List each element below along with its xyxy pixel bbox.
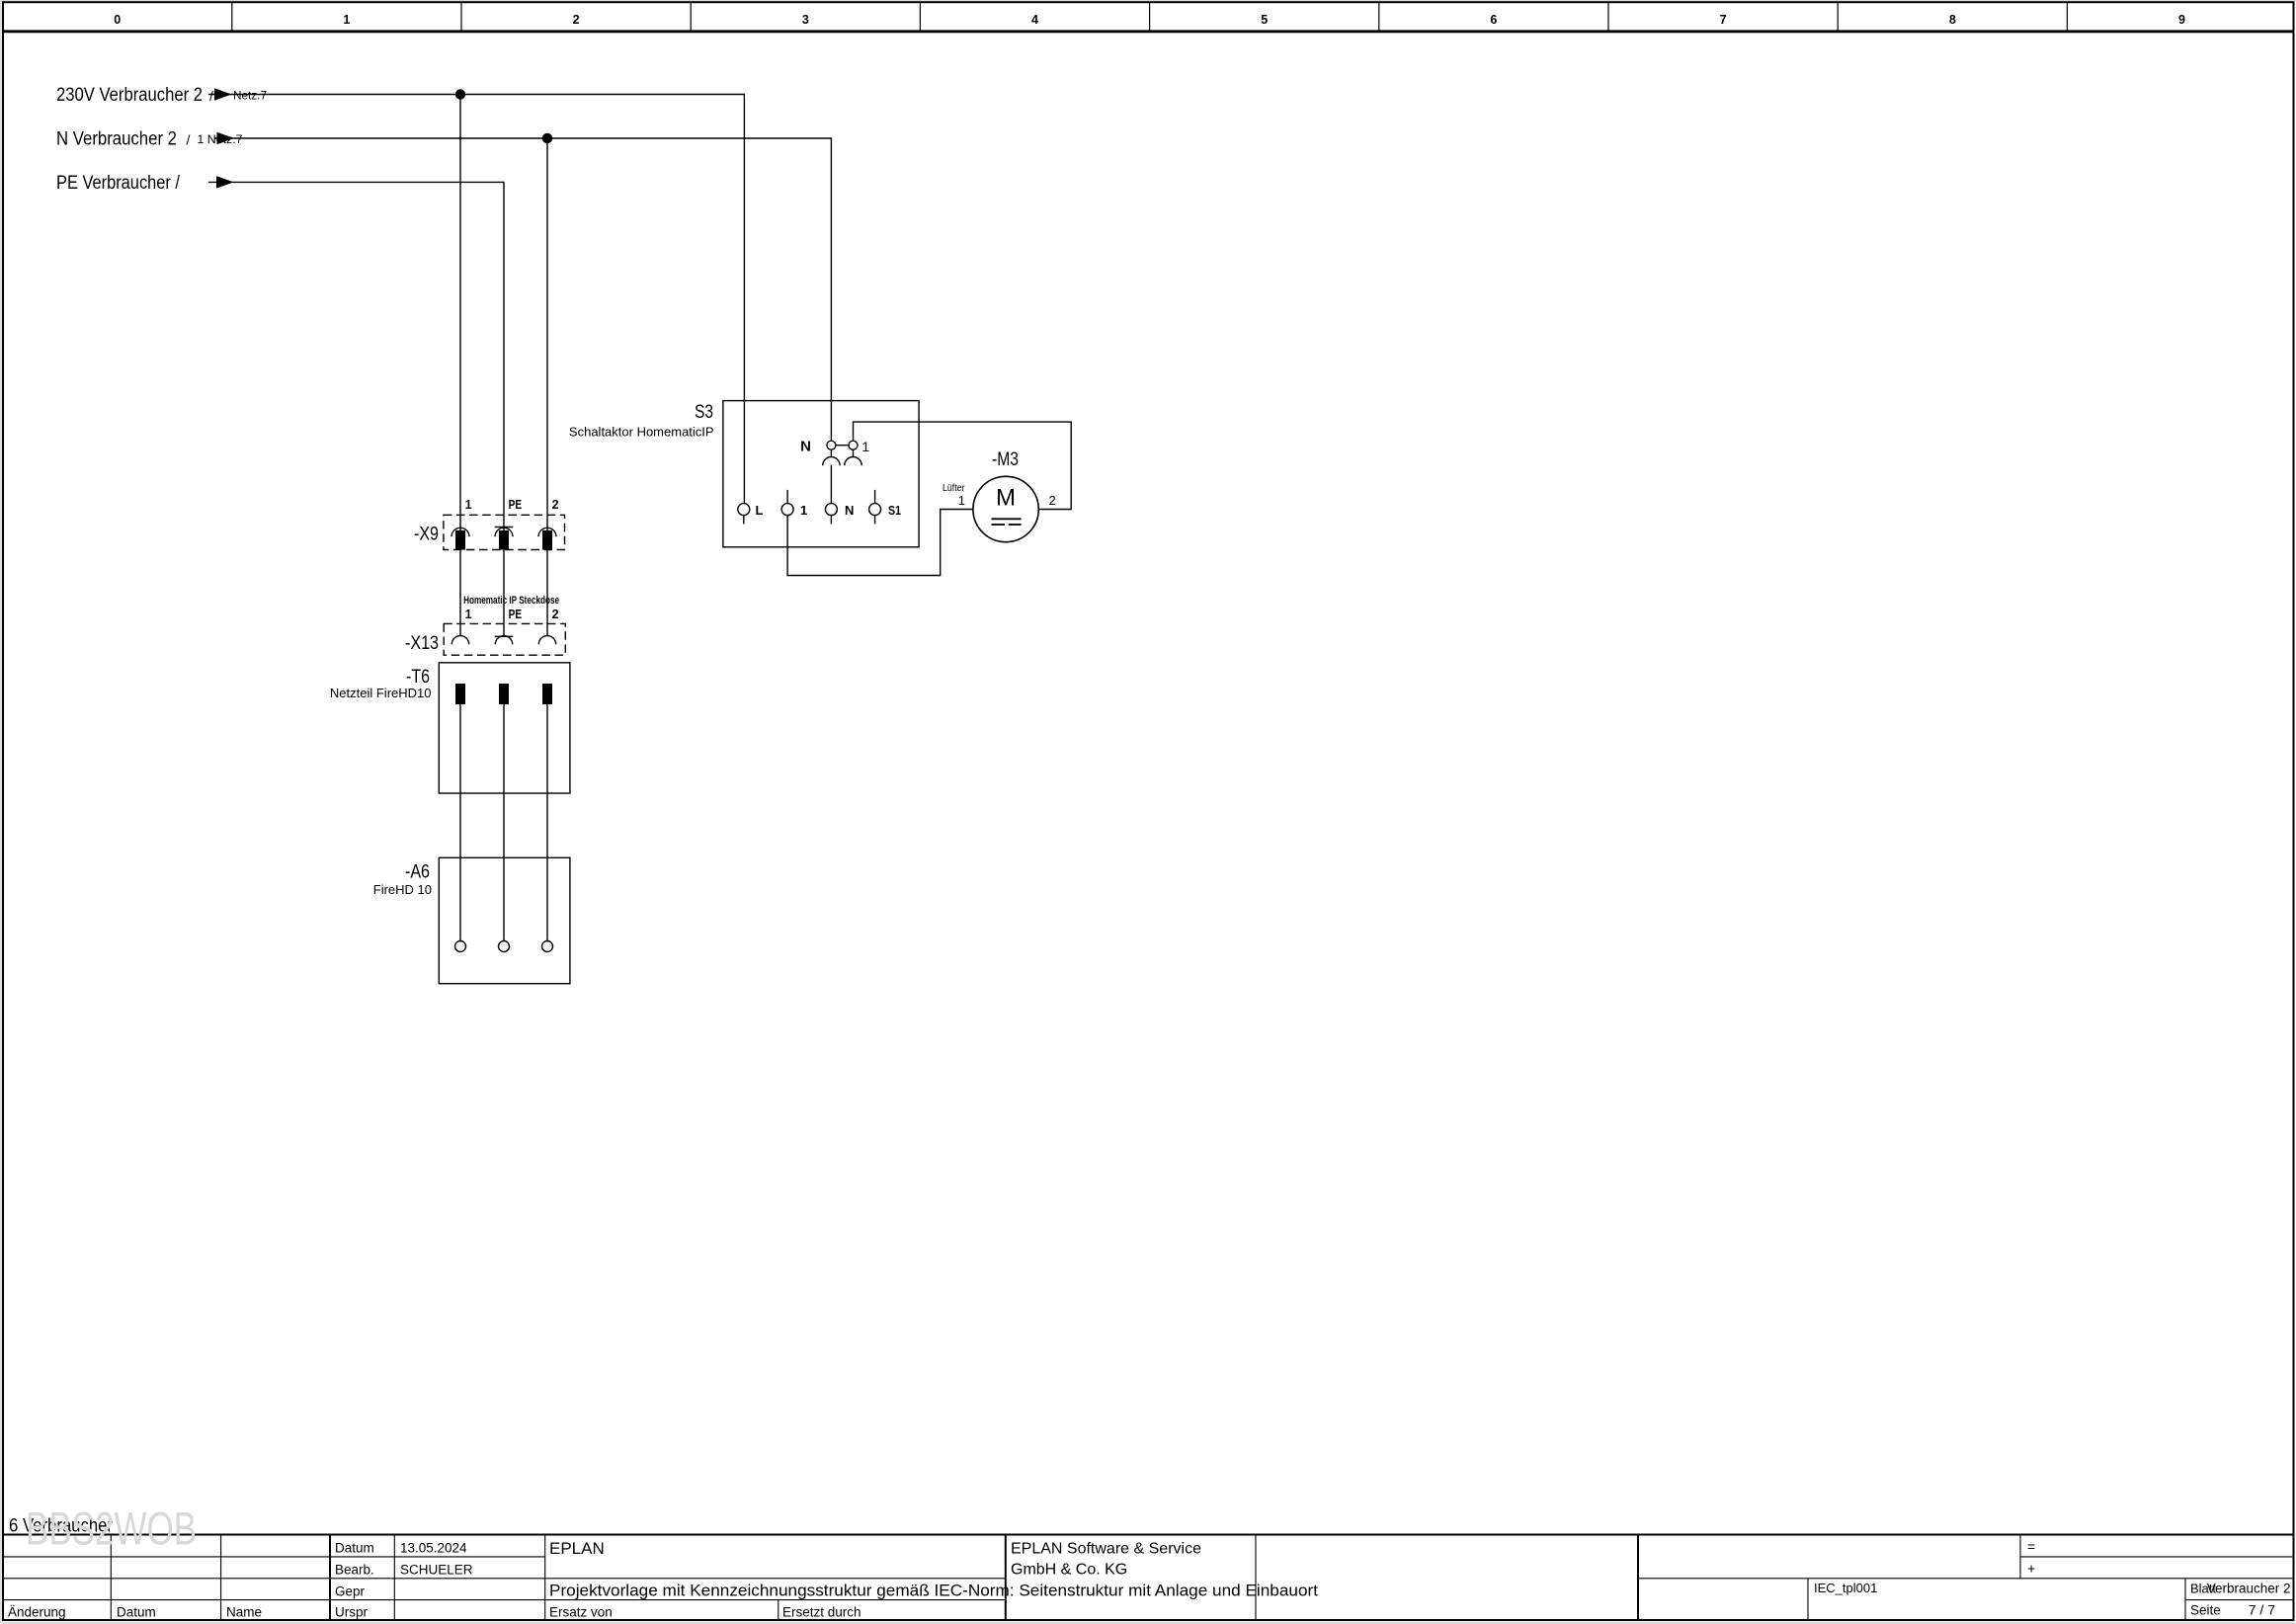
svg-text:Schaltaktor HomematicIP: Schaltaktor HomematicIP [569, 425, 714, 440]
svg-text:5: 5 [1261, 13, 1268, 27]
svg-text:3: 3 [802, 13, 809, 27]
svg-text:Ersatz von: Ersatz von [549, 1605, 613, 1620]
svg-text:Seite: Seite [2190, 1603, 2221, 1618]
svg-text:M: M [996, 485, 1016, 512]
svg-text:-X9: -X9 [414, 525, 439, 545]
svg-text:Ersetzt durch: Ersetzt durch [782, 1605, 861, 1620]
svg-text:=: = [2027, 1539, 2035, 1555]
svg-text:S1: S1 [888, 503, 901, 518]
svg-text:2: 2 [1049, 493, 1056, 508]
svg-text:Datum: Datum [117, 1605, 156, 1620]
svg-text:7: 7 [1720, 13, 1727, 27]
svg-text:Netz.7: Netz.7 [233, 91, 267, 103]
svg-text:SCHUELER: SCHUELER [400, 1563, 473, 1578]
svg-text:N Verbraucher 2: N Verbraucher 2 [56, 129, 177, 150]
svg-text:Datum: Datum [335, 1541, 374, 1556]
svg-text:EPLAN Software & Service: EPLAN Software & Service [1011, 1541, 1201, 1558]
svg-text:Projektvorlage mit Kennzeichnu: Projektvorlage mit Kennzeichnungsstruktu… [549, 1583, 1318, 1600]
svg-text:PE Verbraucher /: PE Verbraucher / [56, 173, 181, 194]
svg-text:Änderung: Änderung [8, 1605, 66, 1620]
svg-text:/: / [209, 88, 213, 104]
svg-text:1: 1 [861, 439, 869, 454]
svg-text:8: 8 [1949, 13, 1956, 27]
svg-text:/: / [187, 132, 191, 148]
svg-text:1: 1 [465, 608, 472, 621]
svg-text:2: 2 [552, 608, 559, 621]
svg-text:4: 4 [1031, 13, 1038, 27]
svg-text:Netzteil FireHD10: Netzteil FireHD10 [330, 686, 432, 700]
svg-text:13.05.2024: 13.05.2024 [400, 1541, 467, 1556]
svg-text:-M3: -M3 [992, 449, 1019, 470]
svg-text:1: 1 [343, 13, 350, 27]
svg-text:GmbH & Co. KG: GmbH & Co. KG [1011, 1562, 1127, 1579]
svg-text:+: + [2027, 1561, 2035, 1577]
svg-text:S3: S3 [695, 402, 713, 423]
svg-text:Bearb.: Bearb. [335, 1563, 374, 1578]
svg-text:PE: PE [509, 608, 523, 621]
svg-text:1: 1 [958, 493, 965, 508]
svg-text:230V Verbraucher 2: 230V Verbraucher 2 [56, 85, 203, 106]
svg-text:-X13: -X13 [405, 633, 439, 654]
svg-text:Name: Name [226, 1605, 262, 1620]
svg-text:0: 0 [114, 13, 121, 27]
svg-text:1: 1 [800, 503, 807, 518]
svg-text:-A6: -A6 [405, 862, 430, 883]
svg-text:6: 6 [1490, 13, 1497, 27]
svg-text:Urspr: Urspr [335, 1605, 369, 1620]
svg-text:EPLAN: EPLAN [549, 1539, 605, 1558]
svg-text:Gepr: Gepr [335, 1584, 366, 1599]
svg-text:Homematic IP Steckdose: Homematic IP Steckdose [463, 595, 559, 607]
svg-text:IEC_tpl001: IEC_tpl001 [1814, 1581, 1877, 1595]
svg-text:N: N [845, 503, 854, 518]
svg-text:9: 9 [2178, 13, 2185, 27]
svg-text:2: 2 [573, 13, 580, 27]
svg-text:BBS2WOB: BBS2WOB [26, 1502, 197, 1555]
svg-text:N: N [800, 439, 811, 455]
svg-text:FireHD 10: FireHD 10 [373, 882, 432, 897]
svg-text:2: 2 [552, 498, 559, 512]
svg-text:1: 1 [465, 498, 472, 512]
svg-text:Verbraucher 2: Verbraucher 2 [2207, 1582, 2291, 1596]
svg-text:PE: PE [509, 498, 523, 512]
svg-text:7 / 7: 7 / 7 [2249, 1602, 2275, 1618]
svg-text:L: L [756, 503, 764, 518]
svg-text:-T6: -T6 [406, 667, 430, 688]
